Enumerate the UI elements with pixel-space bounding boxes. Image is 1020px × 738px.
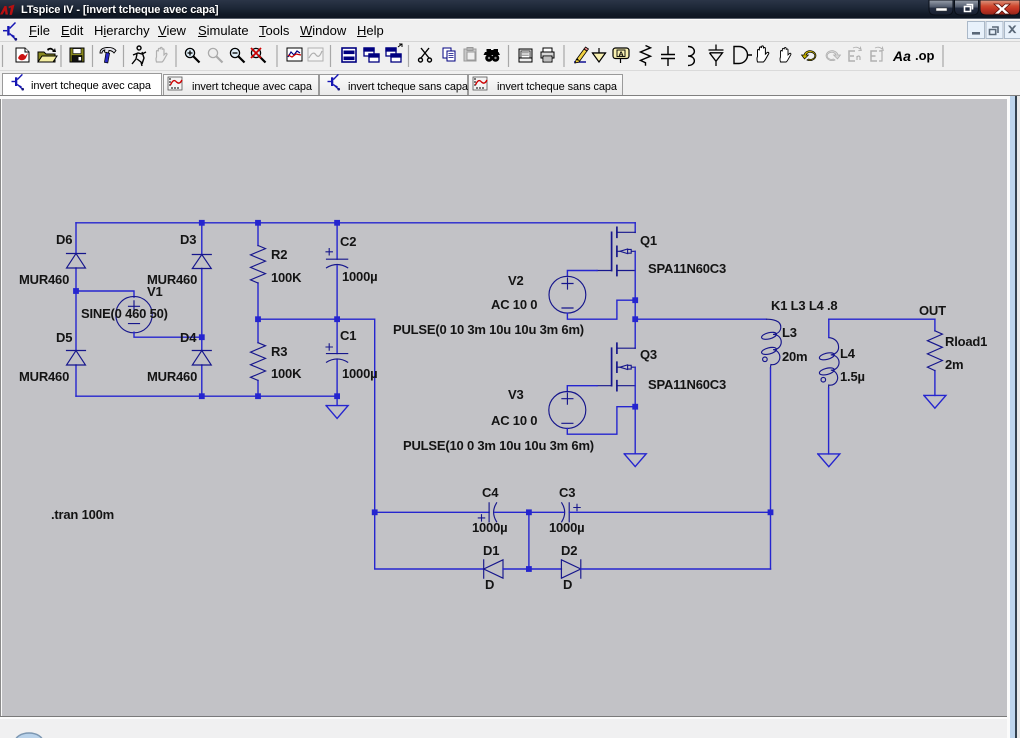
- capacitor C1: [326, 319, 348, 396]
- svg-text:MUR460: MUR460: [19, 272, 69, 287]
- svg-text:1000µ: 1000µ: [549, 520, 584, 535]
- print preview: [519, 49, 532, 62]
- voltage source V1: [116, 296, 152, 332]
- cascade icon: [364, 48, 379, 62]
- wire D3-D4 vertical: [201, 223, 203, 396]
- wire mid rail: [258, 319, 375, 512]
- svg-text:Aa: Aa: [892, 48, 911, 64]
- window buttons: [929, 0, 1020, 15]
- diode D5: [67, 351, 86, 366]
- svg-text:SINE(0 460 50): SINE(0 460 50): [81, 306, 168, 321]
- Em gray icon: [849, 47, 861, 61]
- svg-text:C2: C2: [340, 234, 356, 249]
- copy: [443, 48, 455, 61]
- wire V1 plus lead: [76, 291, 134, 297]
- wire V1 minus lead: [134, 332, 202, 337]
- wire L3 bottom vertical: [770, 368, 772, 569]
- wire Q1 source vertical: [634, 251, 636, 348]
- wire V2 return: [567, 300, 635, 319]
- status bar ellipse: [15, 733, 43, 738]
- new: [16, 48, 29, 62]
- wire D2 to L3 vertical: [581, 568, 771, 570]
- svg-text:A: A: [618, 49, 624, 58]
- zoom out: [230, 48, 244, 62]
- wire C4 to center node: [495, 511, 529, 513]
- svg-text:MUR460: MUR460: [147, 369, 197, 384]
- svg-text:PULSE(0 10 3m 10u 10u 3m 6m): PULSE(0 10 3m 10u 10u 3m 6m): [393, 322, 584, 337]
- node mid rail C2 junction: [334, 316, 340, 322]
- svg-text:K1 L3 L4 .8: K1 L3 L4 .8: [771, 298, 837, 313]
- node bottom rail R3 junction: [255, 393, 261, 399]
- wire midpoint to L3: [635, 318, 766, 320]
- ground under C1: [326, 396, 348, 418]
- wire L4 bottom: [828, 388, 830, 454]
- node D-row center junction: [526, 566, 532, 572]
- print: [541, 48, 554, 62]
- capacitor C3: [562, 503, 581, 522]
- wire C-row left: [375, 511, 489, 513]
- svg-text:D2: D2: [561, 543, 577, 558]
- svg-text:Q3: Q3: [640, 347, 657, 362]
- diode D3: [192, 255, 211, 269]
- undo: [802, 51, 816, 61]
- ground under Q3: [624, 454, 646, 467]
- wire secondary rail: [829, 318, 935, 320]
- svg-text:D1: D1: [483, 543, 499, 558]
- svg-text:.op: .op: [915, 48, 935, 63]
- diode D4: [192, 351, 211, 366]
- svg-text:AC 10 0: AC 10 0: [491, 297, 537, 312]
- svg-text:C3: C3: [559, 485, 575, 500]
- node top rail R2 junction: [255, 220, 261, 226]
- zoom extents: [251, 48, 266, 63]
- wire L4 top: [828, 319, 830, 337]
- svg-text:D5: D5: [56, 330, 72, 345]
- MDI child buttons: [968, 22, 1020, 39]
- node Q3 source junction: [632, 404, 638, 410]
- node bottom rail C1 junction: [334, 393, 340, 399]
- svg-text:SPA11N60C3: SPA11N60C3: [648, 377, 726, 392]
- svg-text:100K: 100K: [271, 366, 302, 381]
- wire D-row left: [375, 512, 484, 569]
- svg-text:V2: V2: [508, 273, 524, 288]
- node Q1 source junction: [632, 297, 638, 303]
- svg-text:AC 10 0: AC 10 0: [491, 413, 537, 428]
- svg-text:1000µ: 1000µ: [472, 520, 507, 535]
- wire center node to C3: [529, 511, 564, 513]
- halt hand (gray): [156, 47, 167, 62]
- svg-text:D: D: [485, 577, 494, 592]
- tile icon: [342, 48, 356, 62]
- toolbar separators: [3, 45, 944, 67]
- node C-row L3 junction: [768, 509, 774, 515]
- wire left vertical: [75, 223, 77, 396]
- svg-text:D4: D4: [180, 330, 197, 345]
- wire Q3 source vertical: [634, 367, 636, 454]
- inductor icon: [688, 47, 694, 66]
- svg-text:1000µ: 1000µ: [342, 269, 377, 284]
- and gate icon: [734, 47, 752, 64]
- label icon: [613, 48, 629, 63]
- node bottom rail D4 junction: [199, 393, 205, 399]
- svg-text:MUR460: MUR460: [19, 369, 69, 384]
- capacitor C2: [326, 223, 348, 319]
- node C-row center junction: [526, 509, 532, 515]
- wire V3 return: [567, 407, 635, 435]
- open: [38, 52, 55, 62]
- cascade2 icon: [386, 44, 402, 62]
- save: [70, 48, 84, 62]
- svg-text:Rload1: Rload1: [945, 334, 987, 349]
- wire center vertical between rows: [528, 512, 530, 569]
- wire center to D2: [529, 568, 562, 570]
- toolbar icons: [16, 44, 935, 66]
- wire top rail: [76, 222, 635, 224]
- resistor icon: [641, 46, 651, 66]
- paste gray: [464, 48, 476, 62]
- svg-text:L3: L3: [782, 325, 797, 340]
- svg-text:PULSE(10 0 3m 10u 10u 3m 6m): PULSE(10 0 3m 10u 10u 3m 6m): [403, 438, 594, 453]
- svg-text:V1: V1: [147, 284, 163, 299]
- diode D2: [561, 560, 580, 578]
- diode icon: [709, 45, 724, 67]
- wire D1 to center: [503, 568, 529, 570]
- resistor Rload1: [927, 319, 942, 395]
- app icon titlebar: [0, 5, 15, 16]
- svg-text:20m: 20m: [782, 349, 807, 364]
- svg-text:D6: D6: [56, 232, 72, 247]
- svg-text:D: D: [563, 577, 572, 592]
- ground under Rload1: [924, 395, 946, 408]
- svg-text:OUT: OUT: [919, 303, 946, 318]
- svg-text:C4: C4: [482, 485, 499, 500]
- svg-text:L4: L4: [840, 346, 856, 361]
- wire C3 to L3 junction: [569, 511, 770, 513]
- svg-text:100K: 100K: [271, 270, 302, 285]
- drag hand: [757, 46, 769, 62]
- svg-text:2m: 2m: [945, 357, 963, 372]
- capacitor C4: [478, 503, 496, 522]
- diode D1: [484, 560, 503, 578]
- waveform pane icon: [287, 48, 302, 61]
- binoculars: [484, 49, 501, 62]
- menubar schematic icon: [3, 23, 17, 41]
- svg-text:R2: R2: [271, 247, 287, 262]
- wire bottom rail: [76, 395, 337, 397]
- node half-bridge midpoint junction: [632, 316, 638, 322]
- svg-text:1.5µ: 1.5µ: [840, 369, 865, 384]
- wire Q3 gate lead: [567, 386, 597, 392]
- svg-text:C1: C1: [340, 328, 356, 343]
- ground under L4: [818, 454, 840, 467]
- voltage source V3: [549, 392, 586, 429]
- tab icons: [12, 74, 25, 90]
- nmos Q1: [597, 227, 635, 275]
- wire Q1 gate lead: [567, 271, 597, 277]
- waveform gray icon: [308, 48, 323, 61]
- ground icon: [592, 48, 606, 62]
- svg-text:V3: V3: [508, 387, 524, 402]
- inductor L4: [819, 338, 839, 389]
- node V1 plus junction: [73, 288, 79, 294]
- inductor L3: [761, 319, 781, 368]
- resistor R2: [251, 223, 266, 319]
- svg-text:.tran 100m: .tran 100m: [51, 507, 114, 522]
- scissors: [419, 48, 432, 62]
- zoom in: [185, 48, 199, 62]
- resistor R3: [251, 319, 266, 396]
- voltage source V2: [549, 276, 586, 313]
- E-bracket gray icon: [871, 47, 883, 61]
- svg-text:SPA11N60C3: SPA11N60C3: [648, 261, 726, 276]
- svg-text:R3: R3: [271, 344, 287, 359]
- run man: [132, 46, 146, 66]
- pencil wire: [574, 47, 589, 63]
- nmos Q3: [597, 343, 635, 391]
- svg-text:D3: D3: [180, 232, 196, 247]
- node top rail D3 junction: [199, 220, 205, 226]
- zoom prev (gray): [208, 48, 222, 62]
- wire Q1 drain pin: [634, 223, 636, 233]
- redo gray: [826, 51, 840, 61]
- svg-text:Q1: Q1: [640, 233, 657, 248]
- node C-row left junction: [372, 509, 378, 515]
- capacitor icon: [661, 46, 675, 66]
- node mid rail R2 junction: [255, 316, 261, 322]
- svg-text:1000µ: 1000µ: [342, 366, 377, 381]
- small hand: [780, 47, 791, 62]
- hammer: [100, 47, 116, 53]
- node top rail C2 junction: [334, 220, 340, 226]
- node V1 minus junction: [199, 334, 205, 340]
- diode D6: [67, 254, 86, 269]
